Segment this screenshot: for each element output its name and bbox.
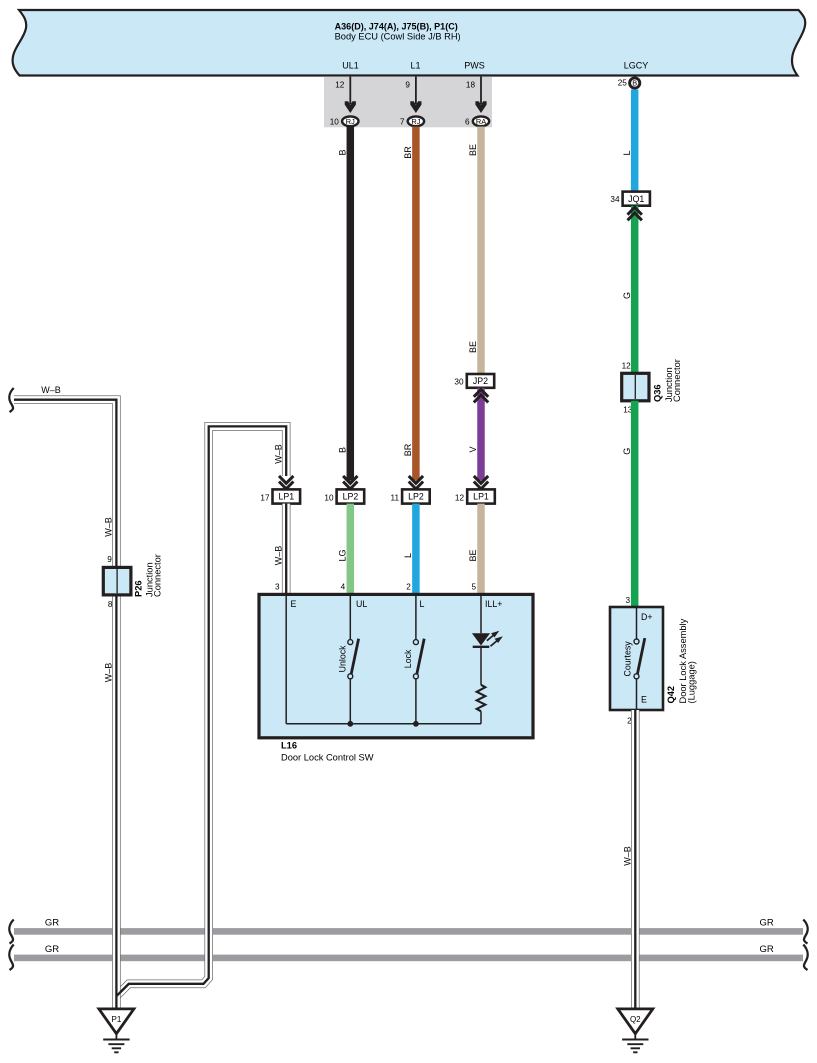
svg-text:12: 12 bbox=[335, 81, 345, 90]
svg-text:LG: LG bbox=[337, 549, 347, 561]
svg-text:6: 6 bbox=[465, 117, 470, 126]
wire merge stripe bbox=[117, 984, 129, 996]
svg-text:UL1: UL1 bbox=[342, 60, 359, 70]
break symbol W-B left bbox=[9, 388, 13, 412]
svg-text:18: 18 bbox=[466, 81, 476, 90]
LED arrow 2 bbox=[491, 641, 497, 646]
wire GR bus lower bbox=[14, 955, 803, 962]
svg-text:3: 3 bbox=[625, 596, 630, 605]
svg-text:PWS: PWS bbox=[464, 60, 485, 70]
wire W-B from LP1 17 up over and down to ground bbox=[117, 426, 286, 995]
connector RJ pin 7 bbox=[408, 116, 424, 126]
switch Lock bbox=[413, 640, 418, 645]
svg-text:8: 8 bbox=[108, 600, 113, 609]
svg-text:UL: UL bbox=[356, 599, 367, 609]
svg-text:Body ECU (Cowl Side J/B RH): Body ECU (Cowl Side J/B RH) bbox=[335, 31, 461, 41]
svg-text:Lock: Lock bbox=[403, 649, 413, 668]
LED illumination diode bbox=[472, 633, 490, 645]
svg-text:L16: L16 bbox=[281, 740, 297, 750]
svg-text:12: 12 bbox=[622, 362, 632, 371]
svg-text:E: E bbox=[641, 695, 647, 705]
svg-text:BE: BE bbox=[468, 144, 478, 156]
wire L blue LGCY bbox=[631, 90, 639, 192]
svg-text:ILL+: ILL+ bbox=[485, 599, 502, 609]
wire LG light green bbox=[347, 504, 355, 594]
svg-text:GR: GR bbox=[45, 944, 59, 955]
svg-text:2: 2 bbox=[406, 583, 411, 592]
arrowhead pin 12 bbox=[345, 101, 356, 113]
svg-text:9: 9 bbox=[107, 555, 112, 564]
wire pin 18 to connector bbox=[480, 77, 482, 104]
wire internal Q42 upper bbox=[636, 607, 638, 639]
svg-text:BE: BE bbox=[468, 549, 478, 561]
chevrons into LP2 10 bbox=[343, 476, 357, 483]
connector B pin 25 bbox=[630, 78, 640, 88]
svg-text:JP2: JP2 bbox=[473, 376, 488, 386]
chevrons into JQ1 bbox=[628, 207, 642, 214]
break symbol GR upper right bbox=[803, 920, 807, 944]
svg-text:4: 4 bbox=[341, 583, 346, 592]
svg-text:BE: BE bbox=[468, 341, 478, 353]
svg-text:G: G bbox=[622, 292, 632, 299]
svg-text:9: 9 bbox=[405, 81, 410, 90]
svg-text:V: V bbox=[468, 446, 478, 452]
wire V violet JP2 to LP1 bbox=[477, 388, 485, 481]
svg-text:RJ: RJ bbox=[346, 117, 355, 126]
svg-text:GR: GR bbox=[760, 944, 774, 955]
junction connector P26 bbox=[103, 567, 131, 595]
svg-text:B: B bbox=[337, 149, 347, 155]
svg-text:RJ: RJ bbox=[411, 117, 420, 126]
svg-text:Door Lock Control SW: Door Lock Control SW bbox=[281, 753, 374, 763]
svg-text:E: E bbox=[291, 599, 297, 609]
svg-text:GR: GR bbox=[45, 917, 59, 928]
switch Unlock bbox=[348, 640, 353, 645]
svg-text:L1: L1 bbox=[410, 60, 420, 70]
svg-text:Q2: Q2 bbox=[630, 1015, 641, 1024]
svg-text:BR: BR bbox=[403, 146, 413, 159]
svg-text:Connector: Connector bbox=[153, 554, 163, 597]
arrowhead pin 18 bbox=[475, 101, 486, 113]
wire pin 12 to connector bbox=[349, 77, 351, 104]
LED arrow 1 bbox=[487, 635, 493, 640]
connector RA pin 6 bbox=[473, 116, 489, 126]
svg-text:G: G bbox=[622, 448, 632, 455]
switch Courtesy bbox=[634, 639, 639, 644]
wire GR bus upper bbox=[14, 928, 803, 935]
svg-text:W–B: W–B bbox=[273, 444, 283, 464]
chevrons into LP1 17 bbox=[279, 476, 293, 483]
Body ECU bus banner A36(D), J74(A), J75(B), P1(C) bbox=[13, 10, 806, 76]
ground Q2 bbox=[618, 1009, 653, 1034]
wire B black UL1 bbox=[347, 127, 355, 481]
junction dot UL bbox=[347, 721, 353, 727]
junction connector Q36 bbox=[622, 373, 649, 401]
svg-text:3: 3 bbox=[275, 583, 280, 592]
svg-text:LP2: LP2 bbox=[343, 492, 359, 502]
svg-text:10: 10 bbox=[330, 117, 340, 126]
svg-text:GR: GR bbox=[760, 917, 774, 928]
wire BE beige PWS bbox=[477, 127, 485, 375]
svg-text:LP1: LP1 bbox=[473, 492, 489, 502]
svg-text:L: L bbox=[622, 150, 632, 155]
svg-text:(Luggage): (Luggage) bbox=[687, 661, 697, 703]
svg-text:JQ1: JQ1 bbox=[628, 194, 644, 204]
connector block shading bbox=[324, 77, 492, 128]
component L16 Door Lock Control SW box bbox=[259, 594, 533, 737]
svg-text:RA: RA bbox=[476, 117, 486, 126]
svg-text:L: L bbox=[403, 553, 413, 558]
arrowhead pin 9 bbox=[410, 101, 421, 113]
svg-text:LGCY: LGCY bbox=[624, 60, 649, 70]
svg-text:25: 25 bbox=[618, 78, 628, 87]
wire internal L upper bbox=[415, 594, 417, 640]
svg-text:W–B: W–B bbox=[104, 517, 114, 537]
svg-text:Connector: Connector bbox=[672, 359, 682, 402]
junction dot L bbox=[413, 721, 419, 727]
component Q42 Door Lock Assembly box bbox=[610, 607, 663, 710]
svg-text:P1: P1 bbox=[112, 1015, 122, 1024]
wire G green from JQ1 to Q36 bbox=[631, 206, 639, 374]
wire internal UL upper bbox=[349, 594, 351, 640]
break symbol GR lower right bbox=[803, 945, 807, 971]
svg-text:5: 5 bbox=[471, 583, 476, 592]
wire internal UL lower bbox=[349, 679, 351, 724]
wire BE to L16 bbox=[477, 504, 485, 594]
svg-text:W–B: W–B bbox=[273, 546, 283, 566]
svg-text:A36(D), J74(A), J75(B), P1(C): A36(D), J74(A), J75(B), P1(C) bbox=[335, 21, 458, 31]
svg-text:Q36: Q36 bbox=[653, 384, 663, 402]
wire internal ILL+ upper bbox=[480, 594, 482, 634]
connector RJ pin 10 bbox=[342, 116, 358, 126]
svg-text:30: 30 bbox=[454, 377, 464, 386]
svg-text:D+: D+ bbox=[641, 612, 653, 622]
svg-text:7: 7 bbox=[400, 117, 405, 126]
wire pin 9 to connector bbox=[415, 77, 417, 104]
wire G green from Q36 to Q42 bbox=[631, 401, 639, 607]
wire internal ILL+ lower bbox=[480, 711, 482, 724]
svg-text:W–B: W–B bbox=[622, 846, 632, 866]
ground P1 bbox=[99, 1009, 134, 1034]
wire internal L lower bbox=[415, 679, 417, 724]
connector LP2 pin 10 bbox=[337, 489, 365, 503]
svg-text:W–B: W–B bbox=[104, 663, 114, 683]
wire internal bottom bus bbox=[286, 723, 481, 725]
svg-text:B: B bbox=[632, 79, 637, 88]
svg-text:10: 10 bbox=[324, 494, 334, 503]
svg-text:Unlock: Unlock bbox=[337, 645, 347, 672]
svg-text:W–B: W–B bbox=[41, 385, 61, 395]
connector LP2 pin 11 bbox=[402, 489, 430, 503]
svg-text:11: 11 bbox=[391, 494, 400, 503]
connector LP1 pin 17 bbox=[273, 489, 301, 503]
svg-text:LP1: LP1 bbox=[278, 492, 294, 502]
chevrons into LP1 12 bbox=[474, 476, 488, 483]
svg-text:12: 12 bbox=[455, 494, 465, 503]
wire W-B left horizontal+vertical to ground P1 bbox=[14, 400, 116, 1009]
wire internal Q42 lower bbox=[636, 679, 638, 710]
wire W-B Q42 to ground Q2 bbox=[631, 710, 640, 1009]
svg-text:Q42: Q42 bbox=[666, 686, 676, 704]
svg-text:BR: BR bbox=[403, 443, 413, 456]
svg-text:L: L bbox=[420, 599, 425, 609]
break symbol GR upper left bbox=[9, 920, 13, 944]
break symbol GR lower left bbox=[9, 945, 13, 971]
svg-text:B: B bbox=[337, 447, 347, 453]
svg-text:Courtesy: Courtesy bbox=[622, 641, 632, 677]
svg-text:P26: P26 bbox=[134, 580, 144, 597]
connector JQ1 bbox=[623, 192, 650, 206]
wire W-B LP1 to L16 pin3 bbox=[282, 504, 291, 594]
wire internal ILL+ mid bbox=[480, 647, 482, 685]
svg-text:17: 17 bbox=[260, 494, 270, 503]
chevrons into LP2 11 bbox=[409, 476, 423, 483]
wire BR brown L1 bbox=[412, 127, 420, 481]
chevrons into JP2 bbox=[474, 389, 488, 396]
wire L blue to L16 bbox=[412, 504, 420, 594]
connector JP2 bbox=[467, 374, 494, 388]
resistor illumination bbox=[477, 685, 486, 712]
svg-text:LP2: LP2 bbox=[408, 492, 424, 502]
svg-text:34: 34 bbox=[610, 195, 620, 204]
wire internal E bbox=[285, 594, 287, 724]
connector LP1 pin 12 bbox=[467, 489, 495, 503]
